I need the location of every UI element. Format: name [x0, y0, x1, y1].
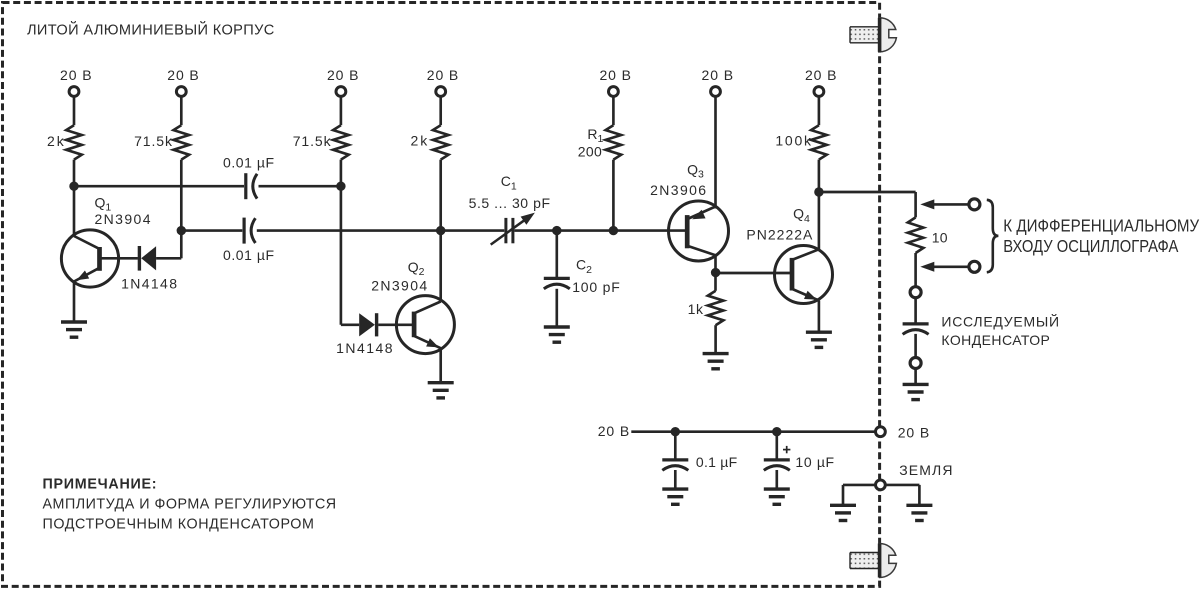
- svg-text:20 В: 20 В: [598, 423, 630, 439]
- svg-text:ПОДСТРОЕЧНЫМ КОНДЕНСАТОРОМ: ПОДСТРОЕЧНЫМ КОНДЕНСАТОРОМ: [43, 517, 314, 533]
- svg-text:ИССЛЕДУЕМЫЙ: ИССЛЕДУЕМЫЙ: [941, 312, 1059, 329]
- svg-text:71.5k: 71.5k: [134, 133, 173, 149]
- svg-text:К ДИФФЕРЕНЦИАЛЬНОМУ: К ДИФФЕРЕНЦИАЛЬНОМУ: [1003, 217, 1199, 236]
- svg-text:АМПЛИТУДА И ФОРМА РЕГУЛИРУЮТСЯ: АМПЛИТУДА И ФОРМА РЕГУЛИРУЮТСЯ: [43, 497, 337, 513]
- svg-text:0.1 µF: 0.1 µF: [696, 454, 737, 470]
- svg-text:2k: 2k: [47, 133, 65, 149]
- svg-text:0.01 µF: 0.01 µF: [223, 154, 274, 170]
- svg-text:100 pF: 100 pF: [572, 279, 620, 295]
- svg-text:PN2222A: PN2222A: [746, 227, 813, 243]
- svg-text:20 В: 20 В: [167, 67, 199, 83]
- svg-text:Q3: Q3: [687, 161, 704, 180]
- svg-text:ПРИМЕЧАНИЕ:: ПРИМЕЧАНИЕ:: [43, 476, 157, 492]
- svg-text:КОНДЕНСАТОР: КОНДЕНСАТОР: [941, 332, 1050, 348]
- svg-text:C2: C2: [576, 257, 592, 276]
- svg-text:200: 200: [578, 144, 602, 160]
- svg-text:100k: 100k: [775, 132, 812, 148]
- svg-text:20 В: 20 В: [60, 67, 92, 83]
- svg-text:1N4148: 1N4148: [336, 340, 393, 356]
- svg-text:20 В: 20 В: [898, 424, 930, 440]
- svg-text:ЗЕМЛЯ: ЗЕМЛЯ: [899, 462, 952, 478]
- svg-text:ЛИТОЙ АЛЮМИНИЕВЫЙ КОРПУС: ЛИТОЙ АЛЮМИНИЕВЫЙ КОРПУС: [27, 20, 274, 38]
- svg-text:5.5 ... 30 pF: 5.5 ... 30 pF: [469, 195, 550, 211]
- svg-text:1N4148: 1N4148: [121, 276, 177, 292]
- svg-text:20 В: 20 В: [805, 67, 837, 83]
- svg-text:10 µF: 10 µF: [795, 454, 834, 470]
- svg-text:20 В: 20 В: [599, 67, 631, 83]
- svg-text:2N3904: 2N3904: [371, 277, 427, 293]
- svg-text:2N3904: 2N3904: [95, 211, 151, 227]
- svg-text:20 В: 20 В: [427, 67, 459, 83]
- svg-text:ВХОДУ ОСЦИЛЛОГРАФА: ВХОДУ ОСЦИЛЛОГРАФА: [1003, 237, 1178, 256]
- svg-text:Q4: Q4: [793, 206, 810, 225]
- svg-text:2N3906: 2N3906: [650, 182, 706, 198]
- svg-text:0.01 µF: 0.01 µF: [223, 247, 274, 263]
- svg-text:20 В: 20 В: [327, 67, 359, 83]
- svg-text:C1: C1: [501, 173, 517, 192]
- svg-text:Q2: Q2: [408, 259, 425, 278]
- svg-text:2k: 2k: [411, 132, 429, 148]
- svg-text:R1: R1: [587, 126, 603, 145]
- svg-text:71.5k: 71.5k: [293, 133, 332, 149]
- svg-text:20 В: 20 В: [702, 67, 734, 83]
- svg-text:10: 10: [932, 229, 948, 245]
- svg-text:1k: 1k: [688, 301, 704, 317]
